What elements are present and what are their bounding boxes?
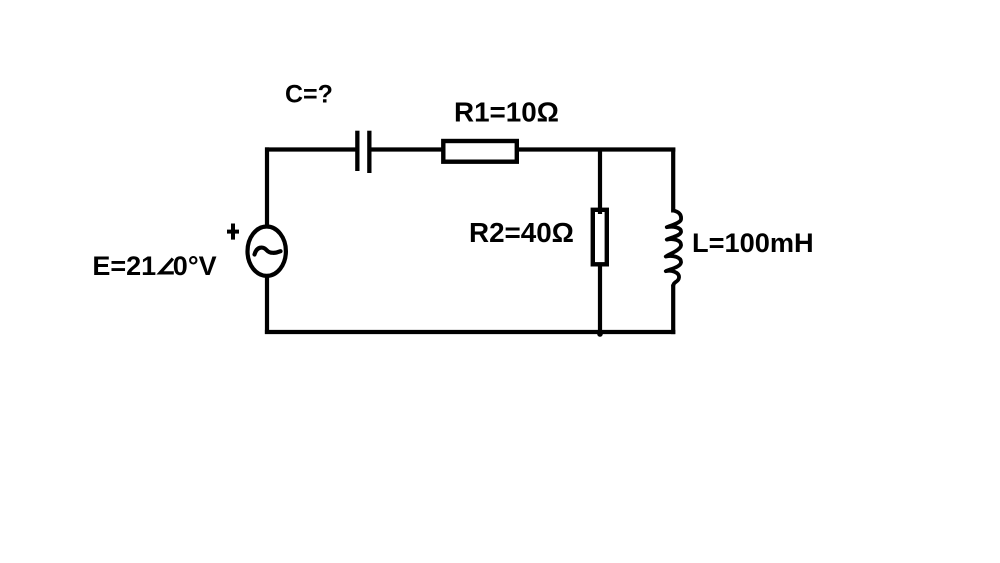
svg-text:0°V: 0°V [173,251,217,281]
junction dot at bottom of R2 branch [597,331,603,337]
inductor L (coil) [666,211,681,286]
voltage source E (AC source) [248,227,286,276]
capacitor C [355,131,371,173]
wire right vertical lower [671,285,675,335]
wire top left segment [265,147,357,151]
resistor R1 [443,141,517,162]
label C=? [285,80,333,108]
wire R2 top branch [598,148,602,215]
svg-text:R2=40Ω: R2=40Ω [469,217,574,248]
wire R2 bottom branch [598,267,602,333]
label R1=10Ω [454,97,559,128]
label E=21∠0°V [92,251,216,281]
wire left vertical lower [265,275,269,334]
svg-text:R1=10Ω: R1=10Ω [454,97,559,128]
label R2=40Ω [469,217,574,248]
wire bottom [265,330,675,334]
wire left vertical upper [265,147,269,228]
+ polarity mark [227,224,239,240]
label L=100mH [692,227,814,258]
resistor R2 [593,210,607,264]
wire right vertical upper [671,148,675,213]
svg-text:E=21: E=21 [92,251,156,281]
svg-text:L=100mH: L=100mH [692,227,814,258]
wire top middle and right segment [369,147,675,151]
svg-text:C=?: C=? [285,80,333,108]
